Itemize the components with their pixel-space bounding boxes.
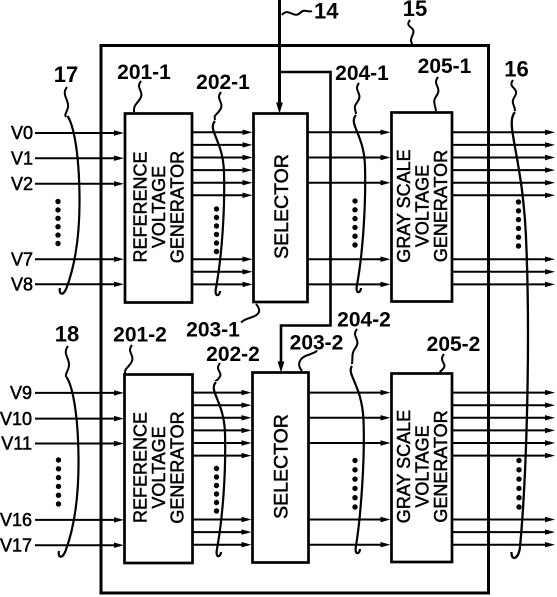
svg-text:15: 15 bbox=[403, 0, 427, 21]
svg-text:GRAY SCALE: GRAY SCALE bbox=[394, 410, 414, 523]
bus 202-2 ellipsis dots bbox=[214, 466, 219, 514]
frame 15 (outer block) bbox=[101, 46, 489, 594]
label 14 bbox=[282, 0, 339, 24]
svg-text:V11: V11 bbox=[1, 434, 32, 454]
svg-text:14: 14 bbox=[314, 0, 339, 24]
svg-text:GENERATOR: GENERATOR bbox=[431, 150, 451, 262]
input ellipsis dots (V12-V15) bbox=[56, 457, 61, 506]
bus 202-1 ellipsis dots bbox=[214, 206, 219, 254]
output wires 16 (bottom gray scale outputs) bbox=[452, 390, 555, 548]
label 201-2 bbox=[113, 324, 167, 375]
svg-text:V0: V0 bbox=[11, 123, 33, 143]
block 201-1 reference voltage generator bbox=[125, 114, 192, 303]
svg-text:17: 17 bbox=[54, 62, 78, 87]
svg-text:V16: V16 bbox=[0, 510, 32, 530]
label 18 with brace over inputs V9-V17 bbox=[55, 322, 79, 557]
output ellipsis dots (top) bbox=[516, 199, 521, 248]
input wire V10 bbox=[0, 409, 124, 429]
selector U2 (bottom) bbox=[253, 373, 309, 563]
label 15 bbox=[403, 0, 427, 45]
svg-text:204-2: 204-2 bbox=[337, 309, 391, 332]
label 203-2 pointing at selector U2 control input bbox=[290, 332, 344, 372]
block 205-1 gray scale voltage generator bbox=[392, 113, 453, 302]
label 17 with brace over inputs V0-V8 bbox=[54, 62, 80, 294]
svg-text:202-1: 202-1 bbox=[196, 71, 250, 94]
svg-text:GENERATOR: GENERATOR bbox=[168, 151, 188, 263]
input wire V9 bbox=[10, 383, 124, 403]
svg-text:GRAY SCALE: GRAY SCALE bbox=[394, 149, 414, 262]
svg-text:SELECTOR: SELECTOR bbox=[271, 414, 293, 519]
bus 204-2 wires (selected voltages to gray scale generator) bbox=[309, 390, 391, 548]
svg-text:16: 16 bbox=[504, 57, 528, 82]
input wire V1 bbox=[11, 148, 124, 168]
svg-text:V10: V10 bbox=[0, 409, 32, 429]
svg-text:201-1: 201-1 bbox=[117, 61, 171, 84]
svg-text:VOLTAGE: VOLTAGE bbox=[149, 426, 169, 508]
svg-text:201-2: 201-2 bbox=[113, 324, 167, 347]
bus 202-1 wires (reference voltages to selector) bbox=[193, 130, 253, 288]
svg-text:V8: V8 bbox=[11, 275, 33, 295]
bus 204-2 ellipsis dots bbox=[352, 458, 357, 510]
label 205-1 bbox=[418, 55, 472, 111]
output wires 16 (top gray scale outputs) bbox=[452, 130, 555, 288]
svg-text:202-2: 202-2 bbox=[206, 343, 260, 366]
svg-text:V17: V17 bbox=[0, 535, 32, 555]
selector U1 (top) bbox=[254, 114, 308, 303]
input wire V16 bbox=[0, 510, 124, 530]
label 16 with brace over outputs bbox=[504, 57, 528, 558]
block 205-2 gray scale voltage generator bbox=[392, 374, 453, 563]
label 204-2 with squiggle through bus bbox=[337, 309, 391, 554]
svg-text:VOLTAGE: VOLTAGE bbox=[149, 166, 169, 248]
bus 204-1 ellipsis dots bbox=[352, 198, 357, 247]
svg-text:V9: V9 bbox=[10, 383, 32, 403]
svg-text:REFERENCE: REFERENCE bbox=[131, 412, 151, 523]
svg-text:V7: V7 bbox=[11, 249, 33, 269]
output ellipsis dots (bottom) bbox=[516, 458, 521, 510]
svg-text:GENERATOR: GENERATOR bbox=[168, 411, 188, 523]
bus 204-1 wires (selected voltages to gray scale generator) bbox=[308, 130, 391, 288]
svg-text:205-2: 205-2 bbox=[427, 333, 481, 356]
label 205-2 bbox=[427, 333, 481, 373]
svg-text:V2: V2 bbox=[11, 174, 33, 194]
wire branch 14 to selector U2 (node 203) bbox=[278, 72, 331, 373]
svg-text:VOLTAGE: VOLTAGE bbox=[413, 425, 433, 507]
label 204-1 with squiggle through bus bbox=[335, 62, 389, 292]
svg-text:REFERENCE: REFERENCE bbox=[131, 151, 151, 262]
svg-text:205-1: 205-1 bbox=[418, 55, 472, 78]
input wire V17 bbox=[0, 535, 124, 555]
svg-text:204-1: 204-1 bbox=[335, 62, 389, 85]
input wire V2 bbox=[11, 174, 124, 194]
bus 202-2 wires (reference voltages to selector) bbox=[193, 390, 252, 548]
input wire V11 bbox=[1, 434, 124, 454]
input wire V8 bbox=[11, 275, 124, 295]
input wire V0 bbox=[11, 123, 124, 143]
svg-text:VOLTAGE: VOLTAGE bbox=[413, 165, 433, 247]
svg-text:V1: V1 bbox=[11, 148, 33, 168]
label 202-2 with squiggle through bus bbox=[206, 343, 260, 556]
svg-text:203-1: 203-1 bbox=[186, 319, 240, 342]
label 203-1 pointing at selector U1 output corner bbox=[186, 304, 259, 342]
label 202-1 with squiggle through bus bbox=[196, 71, 250, 295]
control line 14 into selector U1 bbox=[276, 0, 283, 114]
svg-text:SELECTOR: SELECTOR bbox=[271, 154, 293, 259]
input wire V7 bbox=[11, 249, 124, 269]
label 201-1 bbox=[117, 61, 171, 112]
block 201-2 reference voltage generator bbox=[125, 375, 193, 564]
input ellipsis dots (V3-V6) bbox=[55, 199, 60, 246]
svg-text:GENERATOR: GENERATOR bbox=[431, 410, 451, 522]
svg-text:18: 18 bbox=[55, 322, 79, 347]
